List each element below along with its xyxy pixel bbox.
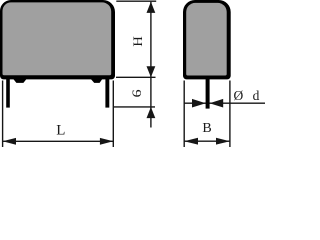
svg-text:Ø: Ø	[234, 88, 244, 103]
svg-text:d: d	[253, 88, 260, 103]
svg-text:6: 6	[131, 89, 145, 97]
svg-text:B: B	[202, 121, 211, 136]
svg-text:H: H	[131, 36, 145, 47]
svg-text:L: L	[56, 122, 65, 138]
